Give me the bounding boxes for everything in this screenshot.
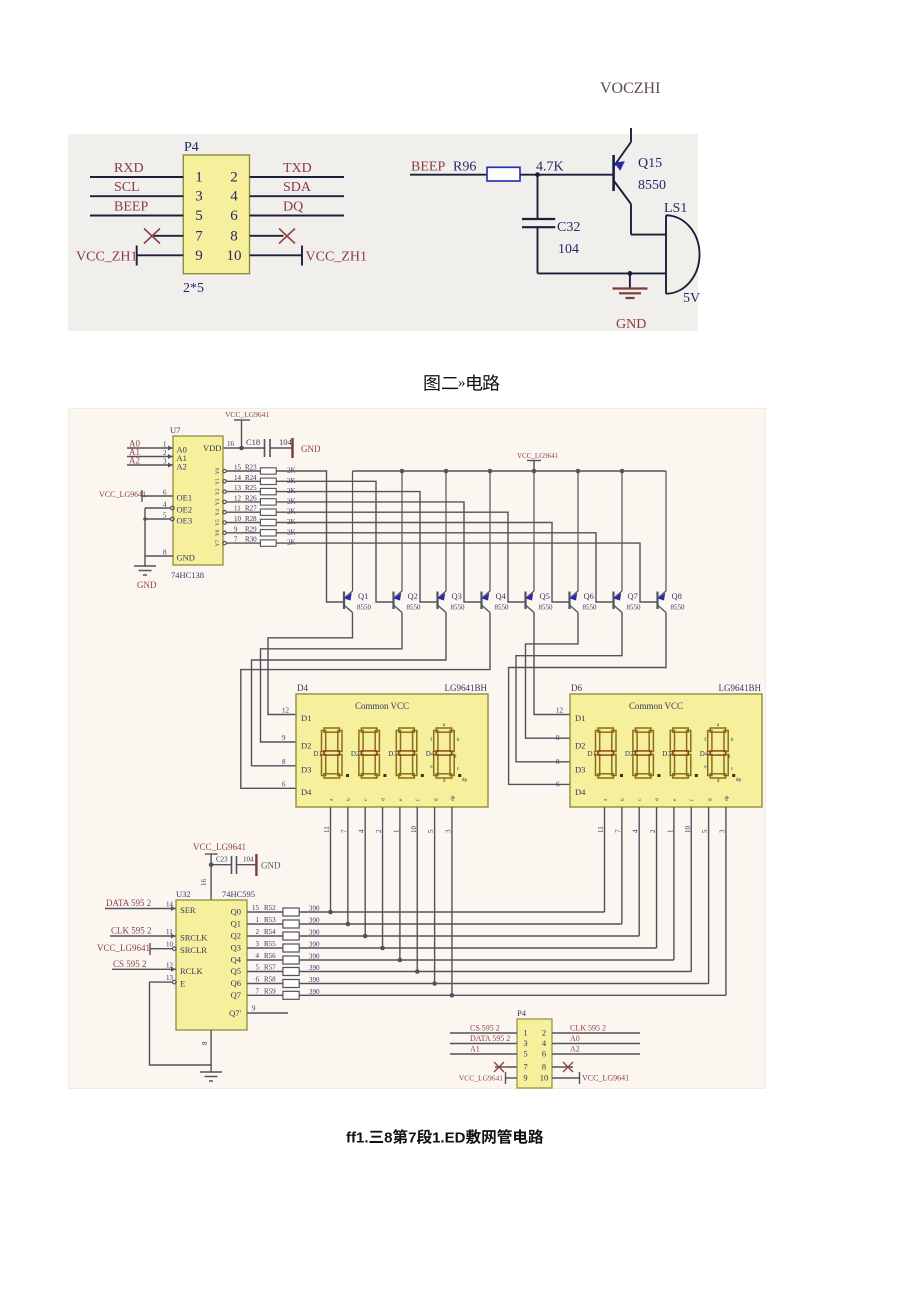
svg-text:dp: dp (462, 777, 468, 783)
wire C23 to GND bar (237, 864, 257, 866)
svg-text:SRCLR: SRCLR (180, 945, 207, 955)
wire DQ from P4 pin 6 (250, 215, 345, 217)
7-segment display D6 (LG9641BH) body (570, 694, 762, 807)
U7 Y6 bubble (223, 531, 226, 534)
svg-text:Q1: Q1 (231, 919, 241, 929)
U32 pin 13 bubble (173, 980, 177, 984)
svg-text:VCC_LG9641: VCC_LG9641 (99, 490, 146, 499)
svg-text:12: 12 (282, 707, 290, 715)
7-segment display D4 (LG9641BH) body (296, 694, 488, 807)
wire to ground (629, 273, 631, 288)
svg-text:Y5: Y5 (215, 519, 221, 526)
svg-text:9: 9 (523, 1073, 527, 1083)
resistor R25 body (260, 488, 276, 494)
svg-text:8550: 8550 (638, 178, 666, 193)
svg-text:8550: 8550 (407, 604, 422, 612)
speaker LS1 symbol (666, 215, 700, 293)
D6 digit 4 glyph (708, 728, 729, 778)
wire U7 Y6 pin stub (226, 532, 260, 534)
svg-text:2: 2 (256, 928, 260, 936)
wire segment net 0 to displays (299, 911, 604, 913)
svg-text:DATA 595 2: DATA 595 2 (106, 898, 151, 908)
svg-text:Q5: Q5 (231, 966, 241, 976)
svg-text:OE1: OE1 (177, 493, 193, 503)
svg-text:dp: dp (724, 795, 730, 801)
svg-text:5: 5 (195, 208, 203, 224)
ground bar (C23) (255, 854, 257, 876)
svg-text:SER: SER (180, 905, 196, 915)
svg-text:CLK 595 2: CLK 595 2 (570, 1024, 606, 1033)
capacitor C32 top lead (537, 175, 539, 219)
svg-text:10: 10 (540, 1073, 549, 1083)
D6 digit 3 glyph (670, 728, 691, 778)
wire Y5 to Q6 base (276, 523, 569, 603)
svg-text:Q7': Q7' (229, 1008, 241, 1018)
junction node segment net 5 (415, 969, 420, 974)
svg-text:6: 6 (163, 489, 167, 497)
no-connect X at P4 pin 8 (279, 229, 295, 244)
wire Q15 collector to speaker LS1 (631, 234, 666, 236)
wire CLK 595 2 from P4 pin 2 (552, 1032, 640, 1034)
no-connect X at P4 pin 7 (144, 229, 160, 244)
svg-text:C32: C32 (557, 220, 580, 235)
wire C32 to speaker bottom (538, 272, 667, 274)
svg-text:d: d (443, 778, 446, 784)
svg-text:Q7: Q7 (231, 990, 241, 1000)
junction node segment net 6 (432, 981, 437, 986)
U7 Y2 bubble (223, 490, 226, 493)
wire D6 segment pin 11 down (604, 807, 606, 912)
svg-text:R28: R28 (245, 515, 257, 523)
top schematic panel background (68, 134, 698, 331)
wire net DATA 595 2 to U32 SER (105, 908, 176, 910)
wire D6 segment pin 1 down (673, 807, 675, 960)
svg-text:LS1: LS1 (664, 201, 687, 216)
svg-text:8550: 8550 (539, 604, 554, 612)
svg-text:R30: R30 (245, 536, 257, 544)
wire Y3 to Q4 base (276, 502, 481, 602)
svg-text:A0: A0 (570, 1034, 580, 1043)
wire U32 Q5 to resistor (247, 971, 283, 973)
svg-text:8550: 8550 (495, 604, 510, 612)
power bar (U32 top) (205, 853, 218, 855)
svg-text:f: f (414, 799, 421, 801)
svg-text:D1: D1 (588, 750, 597, 758)
wire U7 Y0 pin stub (226, 470, 260, 472)
wire segment net 7 to displays (299, 994, 726, 996)
U7 Y3 bubble (223, 500, 226, 503)
wire pins 4/5 tie-down (145, 508, 173, 556)
svg-text:Y3: Y3 (215, 498, 221, 505)
svg-text:R25: R25 (245, 484, 257, 492)
svg-text:GND: GND (261, 861, 281, 871)
junction node rail/Q4 emitter (488, 469, 493, 474)
svg-text:10: 10 (234, 515, 242, 523)
svg-text:LG9641BH: LG9641BH (719, 683, 762, 693)
svg-text:1.ED: 1.ED (432, 1130, 466, 1147)
Q1 emitter arrow (344, 593, 352, 601)
svg-text:D2: D2 (575, 741, 585, 751)
svg-text:b: b (346, 798, 352, 801)
svg-text:SCL: SCL (114, 180, 140, 195)
svg-text:Q15: Q15 (638, 156, 662, 171)
svg-text:BEEP: BEEP (411, 160, 445, 175)
wire VCC to U7 VDD (223, 420, 242, 448)
svg-text:g: g (728, 753, 731, 759)
svg-text:104: 104 (558, 242, 579, 257)
svg-text:9: 9 (195, 248, 203, 264)
Q7 emitter arrow (614, 593, 622, 601)
svg-text:g: g (454, 753, 457, 759)
junction node at GND branch (628, 271, 633, 276)
svg-text:D1: D1 (575, 713, 585, 723)
wire VDD node to C18 (242, 447, 265, 449)
resistor R58 body (283, 980, 299, 988)
U32 SER entry arrow (171, 906, 176, 911)
wire P4 pin 10 to VCC (552, 1077, 580, 1079)
wire U7 GND down (144, 556, 146, 566)
resistor R54 body (283, 932, 299, 940)
U7 pin 3 entry arrow (168, 463, 173, 468)
svg-text:D3: D3 (301, 764, 311, 774)
svg-text:Q5: Q5 (540, 591, 550, 601)
svg-text:dp: dp (736, 777, 742, 783)
svg-text:11: 11 (234, 505, 241, 513)
junction node rail/Q2 emitter (400, 469, 405, 474)
wire A1 to P4 pin 5 (450, 1053, 517, 1055)
svg-text:D3: D3 (388, 750, 397, 758)
svg-text:9: 9 (252, 1005, 256, 1013)
wire U32 Q7' stub (247, 1012, 288, 1014)
resistor R26 body (260, 499, 276, 505)
wire U32 Q7 to resistor (247, 994, 283, 996)
svg-text:R54: R54 (264, 928, 276, 936)
wire A2 from P4 pin 6 (552, 1053, 640, 1055)
wire segment net 1 to displays (299, 923, 622, 925)
svg-text:b: b (620, 798, 626, 801)
svg-text:R52: R52 (264, 904, 276, 912)
resistor R28 body (260, 519, 276, 525)
wire U7 Y2 pin stub (226, 491, 260, 493)
svg-text:Y2: Y2 (215, 488, 221, 495)
svg-text:7: 7 (234, 536, 238, 544)
svg-text:R24: R24 (245, 474, 257, 482)
ground symbol (U32) (200, 1072, 222, 1081)
svg-text:2*5: 2*5 (183, 281, 204, 296)
svg-text:15: 15 (252, 904, 260, 912)
svg-text:f: f (430, 736, 432, 743)
svg-text:C18: C18 (246, 437, 260, 447)
big schematic panel background (69, 409, 766, 1089)
wire Q7 collector to display pin (516, 613, 622, 762)
transistor Q2 (PNP 8550) (394, 471, 403, 613)
D4 digit 3 decimal point (421, 774, 424, 777)
ground symbol GND (top schematic) (613, 289, 648, 299)
D4 digit 1 glyph (322, 728, 343, 778)
junction node pin5 tie (143, 517, 147, 521)
resistor R59 body (283, 991, 299, 999)
capacitor C23 plates (232, 856, 237, 874)
D6 digit 2 decimal point (657, 774, 660, 777)
wire D6 segment pin 7 down (621, 807, 623, 924)
svg-text:12: 12 (234, 494, 242, 502)
wire stub P4 pin 7 (495, 1066, 517, 1068)
wire Q1 collector to display pin (268, 613, 353, 715)
svg-text:2: 2 (230, 170, 238, 186)
svg-text:Q4: Q4 (231, 955, 242, 965)
junction node C23 branch (209, 862, 214, 867)
wire C18 to GND bar (270, 447, 293, 449)
svg-text:6: 6 (542, 1049, 546, 1059)
svg-text:74HC595: 74HC595 (222, 889, 255, 899)
U7 Y5 bubble (223, 521, 226, 524)
wire Y4 to Q5 base (276, 512, 525, 602)
wire VCC drop to rail (533, 461, 535, 472)
svg-text:2: 2 (542, 1028, 546, 1038)
resistor R24 body (260, 478, 276, 484)
svg-text:GND: GND (616, 317, 646, 332)
svg-text:GND: GND (137, 580, 157, 590)
wire Y0 to Q1 base (276, 471, 344, 602)
wire Q5 collector to display pin (534, 613, 570, 715)
wire stub P4 pin 8 (no connect) (250, 235, 284, 237)
svg-text:OE3: OE3 (177, 516, 193, 526)
wire Y1 to Q2 base (276, 481, 393, 602)
svg-text:R23: R23 (245, 464, 257, 472)
svg-text:6: 6 (230, 208, 238, 224)
svg-text:D4: D4 (297, 683, 308, 693)
svg-text:D1: D1 (314, 750, 323, 758)
U7 Y4 bubble (223, 511, 226, 514)
wire U32 GND pin down (210, 1030, 212, 1072)
connector P4 (top) body (183, 155, 249, 274)
wire TXD from P4 pin 2 (250, 176, 345, 178)
wire Q2 collector to display pin (261, 613, 403, 743)
svg-text:A2: A2 (177, 462, 187, 472)
ground bar (C18) (291, 438, 293, 458)
svg-text:R56: R56 (264, 952, 276, 960)
wire D4 segment pin 1 down (399, 807, 401, 960)
svg-text:6: 6 (556, 780, 560, 788)
resistor R53 body (283, 920, 299, 928)
wire U7 Y5 pin stub (226, 522, 260, 524)
wire segment net 3 to displays (299, 947, 656, 949)
svg-text:7: 7 (195, 228, 203, 244)
svg-text:16: 16 (200, 879, 208, 887)
svg-text:4.7K: 4.7K (536, 160, 564, 175)
svg-text:12: 12 (556, 707, 564, 715)
svg-text:Q6: Q6 (584, 591, 594, 601)
junction node segment net 4 (398, 958, 403, 963)
svg-text:1: 1 (523, 1028, 527, 1038)
power bar (SRCLR) (149, 943, 151, 955)
svg-text:VCC_LG9641: VCC_LG9641 (225, 410, 269, 419)
U7 Y0 bubble (223, 469, 226, 472)
wire segment net 4 to displays (299, 959, 674, 961)
svg-text:VDD: VDD (203, 443, 221, 453)
caption: figure 2 (425, 375, 440, 391)
svg-text:DQ: DQ (283, 200, 303, 215)
svg-text:Q6: Q6 (231, 978, 241, 988)
svg-text:Y4: Y4 (215, 509, 221, 516)
resistor R52 body (283, 908, 299, 916)
U32 pin 10 bubble (173, 947, 177, 951)
junction node rail/Q3 emitter (444, 469, 449, 474)
wire Q6 collector to display pin (526, 613, 579, 739)
wire D4 segment pin 5 down (434, 807, 436, 984)
junction node segment net 0 (328, 910, 333, 915)
D6 digit 4 decimal point (732, 774, 735, 777)
wire Q3 collector to display pin (252, 613, 447, 766)
svg-text:D3: D3 (662, 750, 671, 758)
connector P4 (bottom) body (517, 1019, 552, 1088)
svg-text:8550: 8550 (451, 604, 466, 612)
svg-text:5: 5 (523, 1049, 527, 1059)
svg-text:D2: D2 (625, 750, 634, 758)
svg-text:8550: 8550 (627, 604, 642, 612)
wire D4 segment pin 10 down (416, 807, 418, 972)
svg-text:U32: U32 (176, 889, 191, 899)
wire VCC to U32 pin 16 (210, 854, 212, 900)
power bar VCC (U7 top) (234, 419, 250, 421)
wire U7 pin 5 (145, 518, 171, 520)
svg-text:VCC_LG9641: VCC_LG9641 (582, 1074, 629, 1083)
svg-text:5: 5 (256, 964, 260, 972)
svg-text:6: 6 (256, 976, 260, 984)
svg-text:Q2: Q2 (408, 591, 418, 601)
wire U32 Q0 to resistor (247, 911, 283, 913)
wire A0 from P4 pin 4 (552, 1043, 640, 1045)
svg-text:VCC_LG9641: VCC_LG9641 (97, 943, 150, 953)
svg-text:D2: D2 (351, 750, 360, 758)
svg-text:8: 8 (230, 228, 238, 244)
svg-text:d: d (381, 798, 387, 801)
svg-text:f: f (704, 736, 706, 743)
svg-text:R55: R55 (264, 940, 276, 948)
svg-text:R59: R59 (264, 987, 276, 995)
wire U32 Q1 to resistor (247, 923, 283, 925)
capacitor C18 plates (265, 439, 271, 457)
resistor R23 body (260, 468, 276, 474)
svg-text:7: 7 (523, 1062, 527, 1072)
svg-text:d: d (655, 798, 661, 801)
svg-text:15: 15 (234, 464, 242, 472)
svg-text:A2: A2 (129, 456, 140, 466)
wire VCC to SRCLR (150, 948, 173, 950)
wire D4 segment pin 11 down (330, 807, 332, 912)
svg-text:SDA: SDA (283, 180, 312, 195)
D6 digit 1 decimal point (620, 774, 623, 777)
svg-text:Y6: Y6 (215, 529, 221, 536)
Q4 emitter arrow (482, 593, 490, 601)
svg-text:4: 4 (163, 501, 167, 509)
wire BEEP to P4 pin 5 (90, 215, 183, 217)
transistor Q1 (PNP 8550) (344, 471, 353, 613)
junction node at C32 top (535, 172, 540, 177)
wire Y6 to Q7 base (276, 533, 613, 602)
wire D6 segment pin 3 down (725, 807, 727, 995)
svg-text:1: 1 (256, 916, 260, 924)
wire D6 segment pin 5 down (708, 807, 710, 984)
junction node rail/Q7 emitter (620, 469, 625, 474)
wire U7 Y4 pin stub (226, 511, 260, 513)
svg-text:g: g (433, 798, 439, 801)
junction node rail/Q6 emitter (576, 469, 581, 474)
svg-text:7: 7 (256, 987, 260, 995)
svg-text:VCC_LG9641: VCC_LG9641 (459, 1074, 503, 1083)
D4 digit 2 glyph (359, 728, 380, 778)
wire U32 Q2 to resistor (247, 935, 283, 937)
wire VCC to U7 pin 6 (142, 495, 173, 497)
wire D4 segment pin 4 down (364, 807, 366, 936)
svg-text:14: 14 (234, 474, 242, 482)
power bar (U7 G1) (141, 490, 143, 502)
wire net CS 595 2 to U32 RCLK (112, 968, 176, 970)
svg-text:D4: D4 (301, 787, 312, 797)
svg-text:9: 9 (234, 525, 238, 533)
junction node segment net 2 (363, 934, 368, 939)
wire Q8 collector to display pin (509, 613, 666, 785)
wire Q4 collector to display pin (241, 613, 490, 789)
svg-text:1: 1 (163, 441, 167, 449)
transistor Q15 (PNP 8550) (614, 128, 631, 235)
svg-text:f: f (688, 799, 695, 801)
D4 digit 1 decimal point (346, 774, 349, 777)
svg-text:VCC_LG9641: VCC_LG9641 (193, 842, 246, 852)
wire U32 E tie to ground (150, 982, 212, 1065)
svg-text:»: » (458, 375, 466, 391)
connector P4 (bottom) pin numbers (523, 1028, 548, 1083)
junction node rail/Q5 emitter (532, 469, 537, 474)
svg-text:3: 3 (195, 189, 203, 205)
svg-text:Y7: Y7 (215, 540, 221, 547)
no-connect X at P4 pin 7 (bottom) (494, 1062, 504, 1072)
svg-text:Common VCC: Common VCC (629, 701, 683, 711)
Q8 emitter arrow (658, 593, 666, 601)
VCC rail wire (353, 470, 667, 472)
U32 RCLK entry arrow (171, 967, 176, 972)
svg-text:VCC_ZH1: VCC_ZH1 (306, 250, 367, 265)
wire Y7 to Q8 base (276, 543, 657, 602)
wire D4 segment pin 2 down (382, 807, 384, 948)
D4 digit 3 glyph (396, 728, 417, 778)
D4 digit 4 glyph (434, 728, 455, 778)
svg-text:CS 595 2: CS 595 2 (470, 1024, 500, 1033)
U7 pin 2 entry arrow (168, 454, 173, 459)
svg-text:8: 8 (542, 1062, 546, 1072)
wire net CLK 595 2 to U32 SRCLK (110, 935, 176, 937)
svg-text:9: 9 (282, 734, 286, 742)
D4 digit 4 decimal point (458, 774, 461, 777)
wire D6 segment pin 4 down (638, 807, 640, 936)
svg-text:g: g (707, 798, 713, 801)
wire P4 pin 9 to VCC_ZH1 (137, 254, 184, 256)
svg-text:D3: D3 (575, 764, 585, 774)
svg-text:A2: A2 (570, 1045, 580, 1054)
svg-text:RXD: RXD (114, 161, 144, 176)
wire SCL to P4 pin 3 (90, 195, 183, 197)
IC U7 74HC138 body (173, 436, 223, 565)
wire D6 segment pin 2 down (656, 807, 658, 948)
U32 SRCLK entry arrow (171, 934, 176, 939)
IC U32 74HC595 body (176, 900, 247, 1030)
svg-text:GND: GND (177, 553, 195, 563)
svg-text:4: 4 (230, 189, 238, 205)
svg-text:b: b (457, 737, 460, 743)
Q3 emitter arrow (438, 593, 446, 601)
wire to capacitor C23 (211, 864, 231, 866)
svg-text:Q4: Q4 (496, 591, 507, 601)
